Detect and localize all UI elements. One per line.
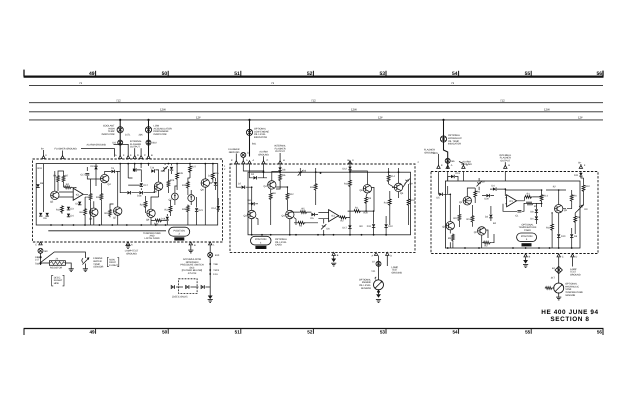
ground bars block3 (523, 265, 528, 268)
svg-text:R28: R28 (182, 208, 187, 211)
resistor R23 (167, 180, 170, 188)
svg-text:12F: 12F (196, 116, 201, 120)
diode D1 left edge (36, 184, 39, 187)
svg-text:CARD: CARD (524, 229, 531, 232)
svg-text:R12: R12 (85, 196, 90, 199)
switch contact 2 (186, 285, 189, 289)
diode D17 (140, 183, 143, 186)
resistor R6 (570, 194, 573, 202)
lamp optional low engine oil level indicator (246, 129, 252, 135)
svg-text:R10: R10 (585, 185, 590, 188)
pins on block1 top edge (42, 156, 45, 159)
svg-text:C: C (466, 164, 468, 167)
svg-text:GROUND: GROUND (258, 153, 269, 156)
transistor Q8 (154, 182, 162, 190)
pin C bottom block3 (557, 254, 560, 257)
diode D4 (67, 214, 70, 217)
svg-text:55: 55 (525, 71, 531, 77)
resistor R9 (109, 209, 112, 217)
svg-text:712: 712 (500, 99, 505, 103)
svg-text:GROUND: GROUND (570, 273, 581, 276)
svg-text:12F: 12F (378, 116, 383, 120)
svg-text:R19: R19 (38, 167, 43, 170)
arrow ground block2 (333, 256, 335, 259)
diode D6 (570, 234, 573, 237)
svg-text:R16: R16 (410, 199, 415, 202)
resistor R12 (471, 215, 474, 223)
diode D8b (278, 167, 281, 170)
svg-text:GROUND: GROUND (229, 151, 240, 154)
diode D16 (166, 217, 169, 220)
resistor R26 (176, 172, 179, 180)
zener D9 (578, 205, 583, 210)
wire block2 pin drops (236, 164, 350, 172)
node dots block1 top rail (119, 163, 214, 165)
wire lamp column 2 (148, 120, 150, 157)
lamp M4 diamond (555, 266, 562, 273)
wire flasher ground block3 (438, 154, 440, 166)
switch contact 1 (171, 285, 174, 289)
svg-text:R14: R14 (543, 195, 548, 198)
transistor Q2 (478, 227, 486, 235)
resistor R24 (154, 219, 162, 222)
label ENGINE WATER TEMP SENSOR (93, 257, 103, 268)
resistor R8 (84, 208, 87, 216)
svg-text:12W: 12W (544, 108, 550, 112)
svg-text:R11: R11 (453, 217, 458, 220)
svg-text:INDICATOR: INDICATOR (154, 133, 167, 136)
svg-text:LATCH CARD: LATCH CARD (144, 237, 159, 240)
ground engine water temp sensor (83, 269, 88, 272)
diode D21 (195, 208, 198, 211)
dashed enclosure block3 (431, 172, 598, 254)
zener D3 (298, 170, 303, 175)
pin letters block1 (46, 154, 154, 157)
wire sensor to ground (84, 264, 86, 269)
transistor Q6 (90, 208, 98, 216)
resistor R2 (339, 216, 347, 219)
wire Q4 net (87, 164, 120, 225)
svg-text:D13: D13 (456, 172, 461, 175)
svg-text:D13: D13 (208, 175, 213, 178)
resistor sensor zigzag (545, 287, 553, 290)
inner bottom rail block1 (48, 230, 166, 232)
node dots block3 bottom rail (447, 247, 573, 249)
svg-text:50: 50 (162, 71, 168, 77)
wire oil level indicator drop (249, 120, 251, 157)
tag RED (522, 243, 532, 246)
transistor Q5 (51, 191, 59, 199)
wire lamp22 into block2 (242, 157, 244, 161)
svg-text:71: 71 (271, 81, 275, 85)
zener D20 (170, 167, 173, 170)
thyristor Q10 (172, 193, 179, 200)
diode D18 (139, 191, 142, 194)
top ruler right end tick (602, 71, 604, 77)
sensor optional hydraulic tank temperature (554, 283, 564, 293)
label alarm ground block2 (258, 151, 269, 157)
resistor R5 (474, 190, 477, 198)
label internal flasher output block1 (130, 140, 142, 148)
lamp coolant high temp indicator (117, 127, 123, 133)
label flasher ground block3 (424, 149, 435, 155)
inner card box block3 (445, 181, 580, 248)
bracket DEEC FLIGHT HPB (52, 275, 64, 286)
wire bus 712 (29, 102, 603, 104)
pin E bottom block1 (39, 242, 42, 245)
resistor R15 (212, 172, 215, 180)
wire lamp column 1 (119, 120, 121, 157)
arrow ground sensor block2 (376, 294, 381, 298)
resistor R22 (169, 205, 172, 213)
diode D15 (127, 191, 130, 194)
svg-text:52: 52 (307, 71, 313, 77)
svg-text:R23: R23 (170, 179, 175, 182)
svg-text:50: 50 (162, 330, 168, 335)
label internal flasher output block3 (499, 154, 511, 163)
svg-text:R10: R10 (56, 209, 61, 212)
label LAMP-TEST GROUND (125, 250, 139, 256)
diode D13 (451, 175, 454, 178)
transistor Q12 (201, 179, 209, 187)
bottom ruler numbers (89, 330, 602, 335)
op-amp IC1 block2 (329, 210, 339, 222)
resistor R2 (483, 241, 491, 244)
label flasher ground block2 (228, 148, 239, 154)
wire block3 pin drops (439, 172, 581, 195)
wire block1 right nets (188, 164, 218, 225)
thyristor Q11 (188, 195, 195, 202)
zener D6 (321, 224, 326, 229)
pin lamp test ground block1 (126, 242, 129, 245)
bus labels (79, 81, 583, 120)
diode D12 (348, 167, 351, 170)
wire block3 right nets (503, 173, 584, 248)
diode D5 left (439, 193, 442, 196)
pins block2 top (235, 161, 238, 164)
wire temp sensor drop (558, 257, 560, 284)
pin letters block2 (231, 159, 355, 162)
diode D11 (372, 224, 375, 227)
resistor R14 (387, 175, 390, 183)
transistor Q7 (114, 207, 122, 215)
svg-text:B10: B10 (153, 142, 158, 145)
wire sensor to ground block3 (558, 292, 560, 296)
diode D3 (67, 207, 70, 210)
diode D13 (214, 182, 217, 185)
svg-text:OUTPUT: OUTPUT (130, 145, 140, 148)
label OPTIONAL ENGINE OIL LEVEL SENSOR (359, 278, 372, 289)
label internal flasher output block2 (274, 145, 286, 154)
pin D bottom block2 (386, 252, 389, 255)
pin B ground block2 (332, 252, 335, 255)
diode D11 top right (579, 173, 582, 176)
resistor R4 (64, 186, 72, 189)
wire sensor drop block2 (378, 256, 380, 280)
tag BLACK (255, 246, 266, 249)
svg-text:71: 71 (79, 81, 83, 85)
svg-text:H: H (283, 159, 285, 162)
svg-text:R14: R14 (390, 175, 395, 178)
svg-text:R11: R11 (310, 186, 315, 189)
diode D5 (46, 213, 49, 216)
resistor R12 (286, 193, 289, 201)
resistor R5 (300, 211, 308, 214)
lamp 10 block2 (376, 261, 381, 266)
label coolant high temp indicator (102, 125, 115, 136)
node junction dots on 12F (119, 119, 445, 121)
inner card box block2 (248, 172, 411, 235)
svg-text:T3C4: T3C4 (213, 269, 220, 272)
svg-text:T83: T83 (35, 262, 40, 265)
node diamond below sensor (377, 290, 380, 294)
resistor R11 (314, 183, 317, 191)
svg-text:31TL: 31TL (125, 134, 131, 137)
wire lamp test stub block3 (572, 257, 574, 266)
node junction B9 (39, 262, 41, 264)
svg-text:C17: C17 (81, 173, 86, 176)
svg-text:12F: 12F (578, 116, 583, 120)
svg-text:R13: R13 (384, 201, 389, 204)
svg-text:FLASHER GROUND: FLASHER GROUND (55, 148, 78, 151)
wire bus 12W (29, 111, 603, 113)
lamp optional hydraulic oil temp indicator (440, 136, 446, 142)
wire bus 71 (29, 84, 603, 86)
resistor R13b (388, 198, 391, 206)
resistor R16 (187, 181, 190, 189)
label LAMP TEST GROUND block3 (570, 268, 581, 277)
diode D8 (251, 202, 254, 205)
label TEMPERATURE AND LATCH CARD (143, 232, 161, 240)
svg-text:R25: R25 (140, 204, 145, 207)
svg-text:SENSOR: SENSOR (361, 287, 371, 290)
svg-text:12W: 12W (351, 108, 357, 112)
wire block3 left nets (439, 177, 506, 249)
wire left vertical block1 (43, 164, 45, 212)
ground sensor block3 (556, 297, 561, 300)
svg-text:HPB: HPB (54, 282, 59, 285)
wire block2 left nets (236, 166, 318, 235)
diode D17a (133, 168, 136, 171)
resistor R8 (574, 215, 577, 223)
tag BLUE (174, 237, 184, 240)
diode D7 (242, 186, 245, 189)
svg-text:OUTPUT: OUTPUT (275, 150, 285, 153)
diode D8 (535, 209, 538, 212)
svg-text:D12: D12 (343, 168, 348, 171)
resistor R8 (269, 192, 272, 200)
svg-text:54: 54 (452, 330, 458, 335)
wire B+ into block1 (43, 150, 45, 157)
svg-text:34T: 34T (551, 277, 556, 280)
label OPTIONAL OIL LEVEL CARD (275, 238, 288, 247)
pin letters block3 (441, 164, 586, 167)
transistor Q3 (248, 210, 256, 218)
svg-text:ALARM GROUND: ALARM GROUND (87, 143, 107, 146)
svg-text:D11: D11 (367, 225, 372, 228)
diode D9 zener (94, 166, 97, 169)
bottom ruler bar (24, 328, 604, 330)
svg-text:FLIGHT: FLIGHT (109, 264, 118, 267)
diode D20 (486, 194, 489, 197)
resistor R15 (407, 198, 410, 206)
svg-text:R12: R12 (467, 218, 472, 221)
svg-text:56: 56 (597, 330, 603, 335)
wire resistor to ground (65, 263, 71, 269)
svg-text:R22: R22 (165, 209, 170, 212)
svg-text:49: 49 (89, 71, 95, 77)
resistor R10 (551, 223, 554, 231)
diode D6 (39, 213, 42, 216)
resistor R7 (62, 175, 65, 183)
lamp low accumulator precharge indicator (145, 127, 151, 133)
label OPTIONAL TEMPERATURE CARD (519, 223, 537, 232)
node dots block2 bottom rail (251, 234, 387, 236)
svg-text:51: 51 (234, 71, 240, 77)
svg-text:GROUND: GROUND (392, 271, 403, 274)
wire block1 mid nets (120, 164, 177, 225)
transistor Q4 (463, 197, 471, 205)
bottom ruler right end tick (602, 329, 604, 336)
diode D14 (217, 206, 220, 209)
ground lamp test block1 (125, 246, 130, 249)
wire diagonal to sensor rail (41, 252, 86, 263)
lamp flasher ground block2 (241, 152, 246, 157)
svg-text:INDICATOR: INDICATOR (254, 136, 267, 139)
transistor Q7 (394, 183, 402, 191)
lamp B6 flasher (445, 158, 450, 163)
svg-text:R13: R13 (344, 183, 349, 186)
wire block1 top rail drops (120, 164, 148, 178)
ground resistor (69, 269, 74, 272)
node T3B (209, 263, 211, 265)
svg-text:D11: D11 (574, 174, 579, 177)
dashed box pressure switch (179, 279, 198, 294)
dashed enclosure block2 (230, 164, 415, 253)
svg-text:T41: T41 (371, 270, 376, 273)
svg-text:D10: D10 (388, 225, 393, 228)
resistor R10 (61, 205, 64, 213)
svg-text:HE 400 JUNE 94: HE 400 JUNE 94 (541, 309, 598, 316)
switch contact 3 (201, 285, 204, 289)
svg-text:53: 53 (379, 71, 385, 77)
resistor R28 (187, 205, 190, 213)
bracket NON DEEC FLIGHT (107, 258, 119, 267)
transistor Q5 (286, 210, 294, 218)
lamp B9 (38, 248, 43, 253)
wire internal flasher output block3 (504, 162, 506, 166)
ground bars sensor block2 (376, 300, 381, 303)
svg-text:D: D (137, 154, 139, 157)
node dots block2 (251, 170, 375, 212)
resistor R9 (452, 234, 455, 242)
svg-text:T3B: T3B (213, 263, 218, 266)
wire B10 down (209, 245, 211, 252)
svg-text:SENSOR: SENSOR (565, 294, 575, 297)
zener D19 (163, 166, 168, 171)
pin C bottom block1 (189, 242, 192, 245)
svg-text:R26: R26 (179, 172, 184, 175)
zener D2 (477, 181, 482, 186)
diode T8 (111, 170, 114, 173)
svg-text:B10: B10 (215, 254, 220, 257)
svg-text:BLUE: BLUE (176, 238, 182, 241)
pin D bottom block3 (571, 254, 574, 257)
svg-text:RESISTOR: RESISTOR (50, 267, 62, 270)
wire alarm ground block2 (263, 156, 265, 162)
wire internal flasher output 1 (134, 148, 136, 156)
resistor R25 (144, 200, 147, 208)
resistor R1 (524, 196, 532, 199)
svg-text:33K: 33K (139, 134, 144, 137)
pin A bottom block2 (374, 252, 377, 255)
svg-text:D17: D17 (343, 226, 348, 229)
svg-text:53: 53 (380, 330, 386, 335)
wire junction to resistor box (41, 262, 50, 264)
svg-text:SENSOR: SENSOR (93, 266, 103, 269)
oval POSITION 5 (517, 233, 537, 242)
wire alarm ground block1 (114, 144, 129, 156)
label OPTIONAL HYDRAULIC TANK TEMPERATURE SENSOR (565, 283, 583, 297)
svg-text:D10: D10 (561, 235, 566, 238)
wire alarm ground block3 (459, 162, 463, 167)
svg-text:H: H (508, 164, 510, 167)
svg-text:R16: R16 (182, 184, 187, 187)
label alarm ground block3 (461, 160, 472, 166)
bottom ruler left end tick (23, 329, 25, 336)
resistor R2b (526, 202, 534, 205)
resistor R1 (353, 210, 361, 213)
svg-text:R10: R10 (546, 226, 551, 229)
svg-text:C: C (144, 154, 146, 157)
svg-text:71: 71 (451, 81, 455, 85)
transistor Q3 (555, 205, 563, 213)
ground pin C block1 (188, 250, 193, 253)
svg-text:D: D (390, 255, 392, 258)
resistor R10r (582, 184, 585, 192)
resistor R27 (189, 165, 192, 173)
transistor Q9 (147, 209, 155, 217)
node dots block2 top rail (263, 171, 400, 174)
pin B ground block3 (524, 254, 527, 257)
svg-text:55: 55 (525, 330, 531, 335)
svg-text:51: 51 (235, 330, 241, 335)
svg-text:BLACK: BLACK (257, 246, 265, 249)
svg-text:D18: D18 (137, 195, 142, 198)
svg-text:52: 52 (307, 330, 313, 335)
svg-text:GROUND: GROUND (424, 151, 435, 154)
diode D4b (535, 216, 538, 219)
svg-text:R12: R12 (289, 193, 294, 196)
wire lamp test stub block2 (386, 256, 388, 266)
diode D10 (557, 234, 560, 237)
svg-text:712: 712 (116, 99, 121, 103)
svg-text:E1A: E1A (213, 273, 218, 276)
lamp B10 flasher 2 (146, 140, 151, 145)
diode D10 (384, 224, 387, 227)
wire internal flasher output block2 (279, 153, 281, 162)
svg-text:D20: D20 (485, 198, 490, 201)
sensor optional engine oil level (374, 280, 384, 290)
zener D9 (405, 179, 410, 184)
wire hydraulic oil temp indicator drop (444, 120, 448, 169)
pin L bottom block1 (209, 242, 212, 245)
svg-text:OUTPUT: OUTPUT (500, 159, 510, 162)
label optional hydraulic oil temp indicator (448, 134, 462, 145)
wire sensor to ground block2 (378, 289, 380, 294)
resistor R4 (297, 221, 305, 224)
wire bus 12F (29, 119, 603, 121)
